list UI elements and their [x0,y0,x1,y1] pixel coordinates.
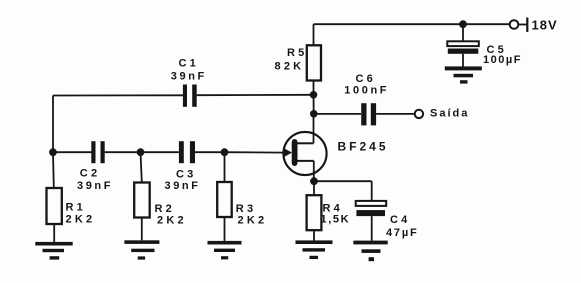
svg-text:C4: C4 [390,214,410,226]
ground (R2) [124,240,159,259]
wire gate line to transistor [225,151,285,153]
gate arrowhead [284,148,292,157]
svg-text:Saída: Saída [430,108,469,120]
node gate line left / R1 junction [49,148,57,156]
svg-text:47µF: 47µF [386,227,419,239]
wire top supply rail [314,23,511,25]
wire source lead [298,160,314,162]
svg-text:18V: 18V [532,18,558,33]
ground (C5) [445,66,482,83]
svg-text:2K2: 2K2 [238,214,268,226]
resistor R3 [217,152,232,241]
ground (R1) [35,242,72,260]
svg-text:C2: C2 [80,168,100,180]
plus sign vertical stroke of +18V [526,18,528,33]
node C3/R3 junction [221,148,229,156]
ground (R4) [296,240,333,259]
wire terminal to plus sign [518,24,526,26]
capacitor C2 [53,141,141,163]
svg-text:2K2: 2K2 [66,213,96,225]
resistor R4 [307,181,322,240]
node source / R4 / C4 junction [310,177,318,185]
svg-text:R3: R3 [236,203,256,215]
capacitor C4 (electrolytic) [356,181,387,240]
svg-text:R1: R1 [66,202,86,214]
svg-text:BF245: BF245 [338,140,389,154]
capacitor C3 [141,141,225,163]
node drain / C1 / R5 junction [310,91,318,99]
ground (C4) [353,241,387,262]
ground (R3) [208,241,242,260]
svg-text:C3: C3 [176,169,196,181]
svg-text:39nF: 39nF [171,71,207,83]
capacitor C6 [314,103,415,125]
svg-text:C6: C6 [356,73,376,85]
capacitor C5 (electrolytic) [447,24,479,67]
resistor R2 [134,152,150,240]
wire drain node to C6 node [313,95,315,114]
node top rail / C5 junction [459,20,467,28]
node C2/C3/R2 junction [137,148,145,156]
envelope circle [283,132,326,175]
svg-text:39nF: 39nF [77,180,113,192]
svg-text:R2: R2 [155,203,175,215]
svg-text:100µF: 100µF [483,54,522,66]
svg-text:C1: C1 [179,58,199,70]
svg-text:82K: 82K [275,61,305,73]
transistor Q1 BF245 JFET [283,114,326,181]
wire drain lead [313,114,315,144]
channel bar [292,139,298,166]
svg-text:2K2: 2K2 [157,214,187,226]
svg-text:39nF: 39nF [165,180,201,192]
terminal +18V open circle [510,20,519,29]
svg-text:1,5K: 1,5K [321,214,351,226]
wire left rail (C1 to gate line) [52,96,54,153]
wire source node to C4 branch [314,180,372,182]
resistor R5 [307,24,321,95]
capacitor C1 [53,85,314,107]
svg-text:R5: R5 [287,47,307,59]
svg-text:100nF: 100nF [344,85,389,97]
node C6 junction [310,110,318,118]
resistor R1 [47,152,62,242]
terminal Saida open circle [415,110,423,118]
